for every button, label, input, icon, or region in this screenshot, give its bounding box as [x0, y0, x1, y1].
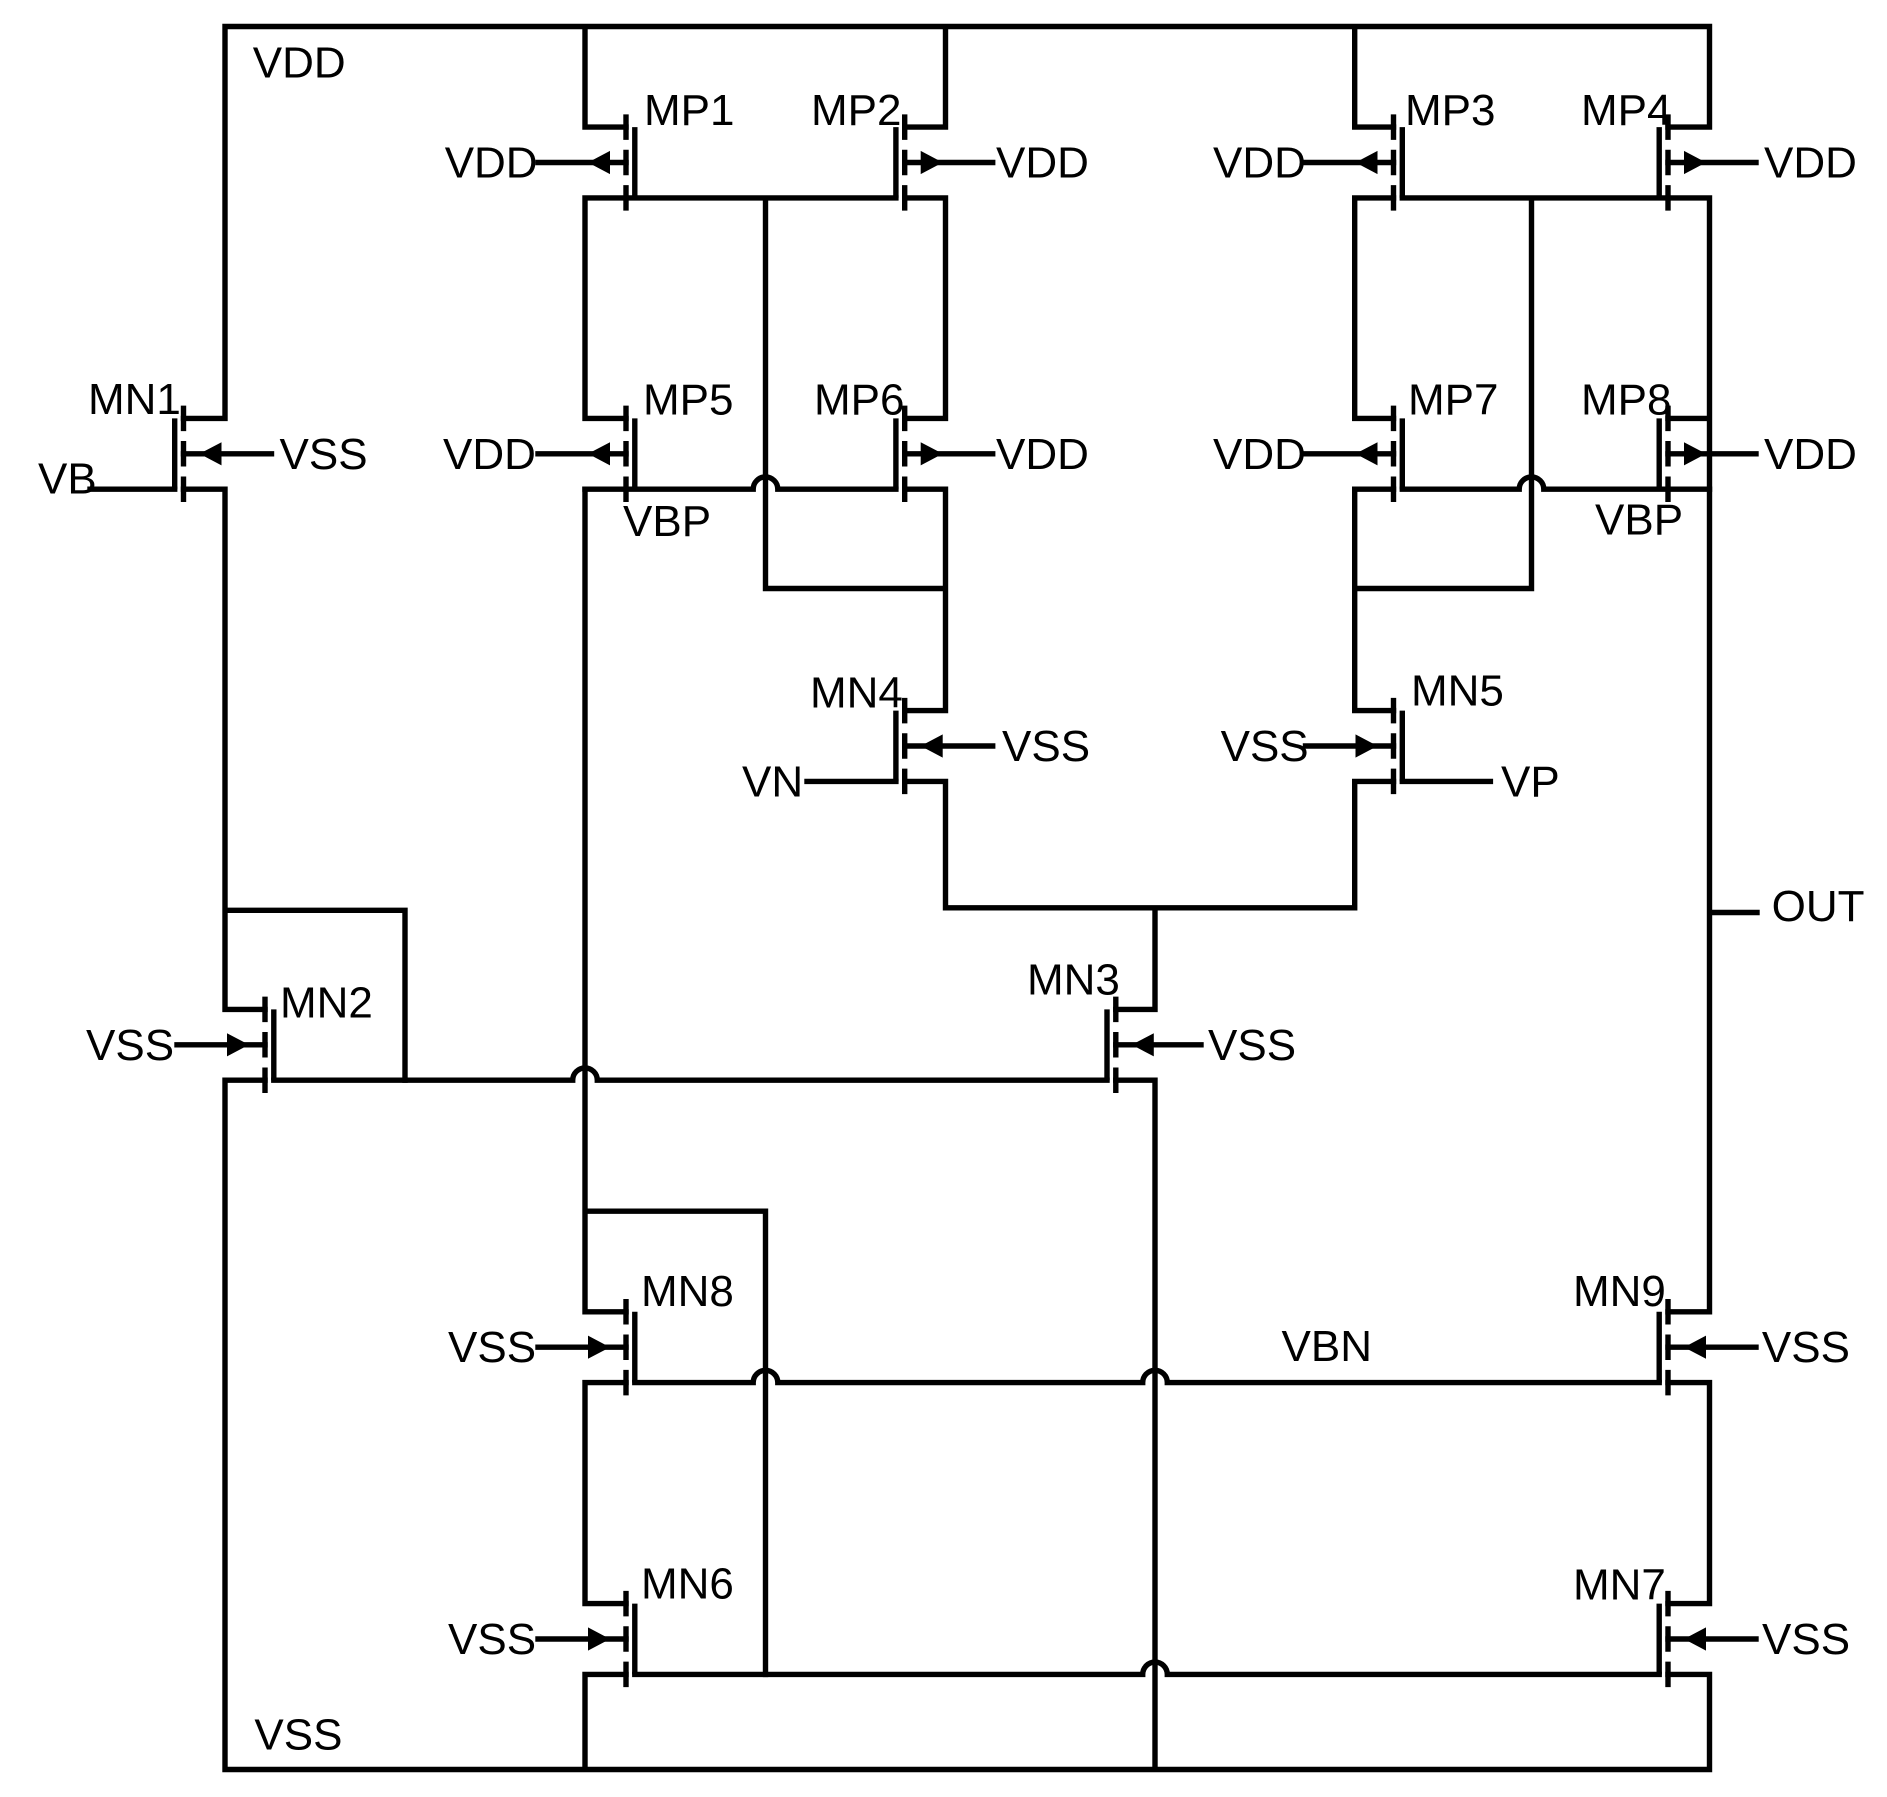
- svg-text:VSS: VSS: [1762, 1615, 1850, 1664]
- svg-text:MN7: MN7: [1573, 1561, 1666, 1610]
- svg-text:VDD: VDD: [443, 430, 536, 479]
- svg-text:VSS: VSS: [280, 430, 368, 479]
- svg-text:MN5: MN5: [1411, 667, 1504, 716]
- svg-text:MP3: MP3: [1405, 86, 1495, 135]
- svg-text:VDD: VDD: [445, 139, 538, 188]
- svg-text:MN1: MN1: [88, 375, 181, 424]
- svg-text:MN8: MN8: [641, 1267, 734, 1316]
- svg-text:VP: VP: [1501, 758, 1560, 807]
- svg-text:VSS: VSS: [448, 1615, 536, 1664]
- svg-text:MN4: MN4: [810, 669, 903, 718]
- svg-text:VDD: VDD: [1764, 430, 1857, 479]
- svg-text:MN2: MN2: [280, 979, 373, 1028]
- svg-text:VDD: VDD: [1213, 139, 1306, 188]
- svg-text:MN3: MN3: [1027, 956, 1120, 1005]
- svg-text:VBN: VBN: [1282, 1322, 1372, 1371]
- svg-text:MP2: MP2: [811, 86, 901, 135]
- svg-text:VSS: VSS: [86, 1021, 174, 1070]
- svg-text:VSS: VSS: [1002, 722, 1090, 771]
- svg-text:MN9: MN9: [1573, 1267, 1666, 1316]
- svg-text:MP7: MP7: [1408, 376, 1498, 425]
- svg-text:MP8: MP8: [1581, 376, 1671, 425]
- svg-text:VN: VN: [742, 758, 803, 807]
- svg-text:VSS: VSS: [1221, 722, 1309, 771]
- svg-text:VBP: VBP: [623, 497, 711, 546]
- svg-text:VB: VB: [38, 455, 97, 504]
- svg-text:VSS: VSS: [254, 1711, 342, 1760]
- svg-text:OUT: OUT: [1772, 882, 1865, 931]
- svg-text:VDD: VDD: [1213, 430, 1306, 479]
- svg-text:VSS: VSS: [448, 1323, 536, 1372]
- svg-text:VBP: VBP: [1595, 496, 1683, 545]
- svg-text:MP1: MP1: [644, 86, 734, 135]
- svg-text:MP6: MP6: [814, 376, 904, 425]
- svg-text:VDD: VDD: [996, 430, 1089, 479]
- svg-text:VDD: VDD: [996, 139, 1089, 188]
- svg-text:VSS: VSS: [1208, 1021, 1296, 1070]
- svg-text:MP4: MP4: [1581, 86, 1671, 135]
- svg-text:VDD: VDD: [1764, 139, 1857, 188]
- svg-text:MP5: MP5: [643, 376, 733, 425]
- svg-text:VDD: VDD: [253, 39, 346, 88]
- svg-text:VSS: VSS: [1762, 1323, 1850, 1372]
- svg-text:MN6: MN6: [641, 1560, 734, 1609]
